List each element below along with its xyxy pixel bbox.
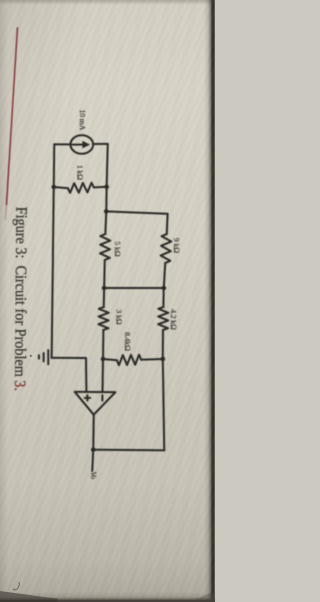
pen squiggle bottom-left <box>13 582 19 590</box>
ground <box>39 350 48 364</box>
resistor R 1k branch <box>54 183 107 193</box>
svg-text:5 kΩ: 5 kΩ <box>113 241 122 256</box>
wire: riser to 9k branch <box>106 211 167 213</box>
speck near ground <box>30 355 32 357</box>
svg-text:Figure 3: Circuit for Problem: Figure 3: Circuit for Problem 3. <box>11 207 29 391</box>
svg-text:9 kΩ: 9 kΩ <box>172 238 181 253</box>
resistor R 9k body <box>161 234 172 263</box>
svg-text:8.4kΩ: 8.4kΩ <box>123 332 132 351</box>
wire: link 9k row to rail at x288 <box>104 287 164 289</box>
wire: top rail <box>105 144 107 234</box>
wire: output <box>92 415 95 450</box>
svg-text:4.2 kΩ: 4.2 kΩ <box>169 309 178 330</box>
wire: output stub <box>92 450 93 471</box>
wire: feedback right leg <box>93 449 164 452</box>
svg-text:3 kΩ: 3 kΩ <box>115 309 124 324</box>
wire: + input from ground node <box>52 358 87 392</box>
svg-text:1 kΩ: 1 kΩ <box>76 165 85 180</box>
wire: bottom rail <box>52 144 55 357</box>
svg-text:10 mA: 10 mA <box>78 110 87 131</box>
resistor R 8.4k branch <box>103 355 163 366</box>
current source I1 10 mA <box>54 135 107 154</box>
resistor R 5k body <box>100 234 110 260</box>
op-amp U1 <box>75 392 116 415</box>
resistor R 4.2k body <box>158 307 168 330</box>
wire: upper branch <box>166 214 169 234</box>
red margin line <box>6 27 17 205</box>
resistor R 3k body <box>99 307 109 330</box>
svg-text:Vo: Vo <box>89 472 98 480</box>
node: junction dots <box>52 185 167 453</box>
